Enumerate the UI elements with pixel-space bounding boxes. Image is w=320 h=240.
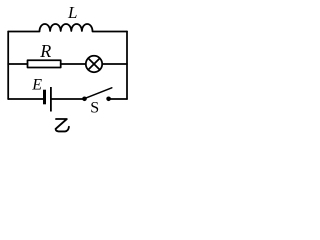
wire lamp to right vertical [102,63,127,65]
wire middle-left [8,63,27,65]
resistor R [28,60,61,67]
inductor L [40,24,93,31]
wire battery to switch [52,98,83,100]
wire right vertical [126,32,128,100]
switch blade [85,88,112,99]
wire switch to right vertical [109,98,127,100]
svg-text:E: E [31,77,42,94]
switch right contact dot [106,97,111,102]
battery E short thick plate [43,90,46,105]
wire bottom-left to battery [8,98,43,100]
svg-text:S: S [90,99,99,116]
figure label (Chinese character yi) [56,119,69,131]
wire top-left to inductor [8,31,39,33]
svg-text:R: R [39,41,51,61]
lamp [86,56,102,72]
switch left contact dot [82,97,87,102]
wire inductor to top-right [93,31,128,33]
wire resistor to lamp [61,63,86,65]
svg-text:L: L [67,3,77,22]
wire left vertical [7,32,9,100]
lamp cross [88,58,100,70]
battery E long thin plate [50,87,52,112]
